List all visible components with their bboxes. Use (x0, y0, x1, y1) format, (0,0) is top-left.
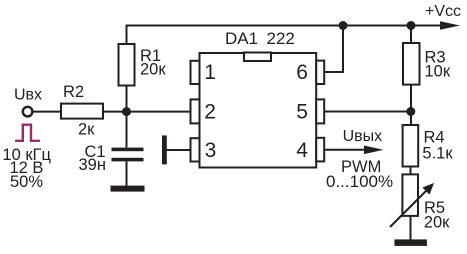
svg-text:39н: 39н (79, 156, 106, 174)
svg-text:Uвых: Uвых (343, 128, 383, 145)
capacitor C1 plate top (112, 148, 144, 152)
wire pin 6 to rail (324, 26, 343, 73)
wire node A to C1 (126, 112, 128, 148)
svg-text:Uвх: Uвх (14, 87, 42, 104)
svg-text:20к: 20к (424, 214, 450, 232)
wire top rail +Vcc (127, 26, 445, 45)
svg-text:DA1: DA1 (225, 29, 258, 48)
wire pin 4 output (324, 149, 367, 151)
terminal Uвх (23, 107, 33, 117)
ground bar under C1 (111, 186, 145, 192)
resistor R3 (403, 43, 420, 85)
wire pin 5 to node B (324, 111, 411, 113)
svg-text:2к: 2к (78, 121, 95, 139)
pin 3 (191, 138, 200, 161)
svg-text:1: 1 (204, 61, 216, 84)
junction dot pin6/rail (339, 21, 348, 30)
pin 1 (191, 61, 200, 84)
svg-text:5.1к: 5.1к (422, 144, 453, 162)
pin 2 (191, 99, 200, 123)
capacitor C1 plate bottom (112, 158, 144, 162)
wire node B to R4 (410, 112, 412, 126)
junction dot R3/rail (407, 21, 416, 30)
pin 6 (316, 61, 324, 84)
svg-text:2: 2 (204, 101, 216, 124)
wire R1 bottom to node A (126, 86, 128, 112)
wire rail to R3 (410, 26, 412, 44)
wire R4 to R5 (410, 167, 412, 175)
svg-text:+Vcc: +Vcc (425, 3, 461, 20)
wire R5 to ground (410, 216, 412, 240)
resistor R2 (61, 104, 103, 119)
svg-text:R2: R2 (63, 83, 84, 101)
wire C1 to ground (126, 162, 128, 187)
wire input to R2 (33, 111, 61, 113)
op-amp U1 body DA1 (200, 53, 317, 168)
resistor R4 (403, 125, 419, 167)
svg-text:10к: 10к (425, 62, 451, 80)
svg-text:222: 222 (267, 29, 295, 48)
svg-text:0...100%: 0...100% (326, 172, 393, 191)
pin 5 (316, 99, 324, 123)
svg-text:50%: 50% (10, 173, 43, 191)
resistor R5 (402, 174, 418, 216)
svg-text:4: 4 (296, 139, 308, 162)
wire R3 to node B (410, 85, 412, 112)
svg-text:6: 6 (296, 61, 308, 84)
ground bar under R5 (394, 239, 427, 246)
wire node A to pin 2 (127, 111, 191, 113)
potentiometer R5 arrow (390, 191, 427, 228)
ground bar pin 3 (162, 135, 167, 164)
wire R2 to node A (103, 111, 127, 113)
svg-text:5: 5 (296, 101, 308, 124)
wire pin 3 to ground bar (167, 149, 191, 151)
svg-text:3: 3 (205, 139, 217, 162)
pin 4 output arrowhead (364, 146, 384, 155)
pin 4 (316, 138, 324, 162)
resistor R1 (119, 44, 135, 86)
pulse waveform symbol (15, 125, 40, 141)
+Vcc arrowhead (440, 21, 460, 30)
notch (244, 53, 271, 62)
svg-text:20к: 20к (140, 60, 166, 78)
node B junction dot (406, 107, 415, 116)
node A junction dot (122, 107, 131, 116)
